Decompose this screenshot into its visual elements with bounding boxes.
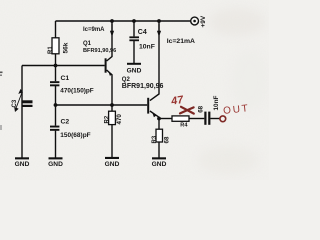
svg-text:68: 68: [164, 136, 171, 143]
svg-text:470: 470: [116, 114, 123, 125]
svg-text:10nF: 10nF: [213, 95, 220, 110]
svg-text:470(150)pF: 470(150)pF: [60, 88, 93, 95]
svg-text:150(68)pF: 150(68)pF: [60, 132, 90, 139]
svg-text:+9V: +9V: [200, 15, 207, 27]
svg-text:C2: C2: [61, 119, 70, 126]
svg-text:GND: GND: [48, 161, 63, 168]
svg-text:R4: R4: [180, 122, 188, 128]
svg-text:GND: GND: [105, 161, 120, 168]
svg-text:10nF: 10nF: [139, 43, 155, 50]
svg-text:GND: GND: [15, 161, 30, 168]
svg-text:68: 68: [197, 105, 204, 112]
svg-text:C3: C3: [12, 99, 18, 107]
svg-text:GND: GND: [127, 68, 142, 75]
svg-text:R3: R3: [152, 135, 158, 143]
svg-text:C1: C1: [61, 75, 70, 82]
svg-text:56k: 56k: [62, 42, 69, 53]
svg-text:R2: R2: [104, 115, 110, 123]
svg-text:Ic=9mA: Ic=9mA: [83, 27, 105, 33]
svg-text:R1: R1: [48, 46, 54, 54]
svg-text:BFR91,90,96: BFR91,90,96: [122, 83, 164, 90]
svg-text:GND: GND: [152, 161, 167, 168]
svg-text:Q1: Q1: [83, 41, 92, 47]
svg-text:Ic=21mA: Ic=21mA: [167, 38, 195, 45]
svg-text:BFR91,90,96: BFR91,90,96: [83, 48, 116, 54]
svg-text:C4: C4: [138, 29, 147, 36]
